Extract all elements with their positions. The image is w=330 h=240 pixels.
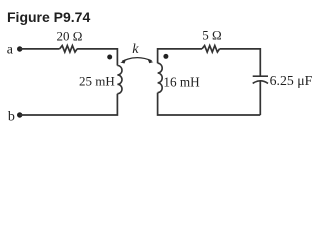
inductor L2 polarity dot — [163, 54, 168, 59]
coupling coefficient arrow k — [122, 58, 151, 62]
wire: bottom of right coil L2 to bottom right corner — [158, 93, 261, 115]
svg-text:25 mH: 25 mH — [79, 74, 115, 89]
svg-text:16 mH: 16 mH — [163, 74, 200, 89]
wire: terminal a to resistor R1 — [20, 48, 60, 50]
resistor R2 5 ohm zigzag — [202, 46, 220, 53]
wire: bottom of left coil L1 to terminal b — [20, 94, 118, 115]
wire: capacitor C1 to bottom wire — [259, 81, 261, 115]
capacitor C1 top flat plate — [253, 75, 268, 77]
resistor R1 20 ohm zigzag — [60, 46, 78, 53]
svg-text:b: b — [8, 109, 15, 124]
terminal b node dot — [17, 112, 22, 117]
svg-text:20 Ω: 20 Ω — [57, 29, 83, 44]
wire: top of right coil L2 to resistor R2 — [158, 49, 202, 63]
svg-text:6.25 μF: 6.25 μF — [270, 73, 313, 88]
inductor L2 16 mH coil — [158, 63, 163, 92]
inductor L1 25 mH coil — [117, 66, 122, 94]
svg-text:a: a — [7, 42, 14, 57]
capacitor C1 curved bottom plate — [253, 81, 268, 84]
svg-text:Figure P9.74: Figure P9.74 — [7, 9, 90, 25]
inductor L1 polarity dot — [107, 55, 112, 60]
svg-text:k: k — [132, 42, 139, 57]
svg-text:5 Ω: 5 Ω — [202, 28, 221, 43]
wire: resistor R2 to capacitor C1 top plate — [220, 49, 261, 76]
terminal a node dot — [17, 46, 22, 51]
wire: resistor R1 to top of left coil L1 — [77, 49, 117, 66]
